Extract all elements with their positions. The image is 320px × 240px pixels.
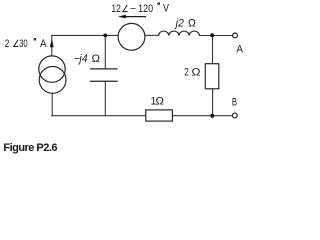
junction dot node A — [210, 33, 214, 37]
svg-text:j4: j4 — [77, 53, 87, 65]
svg-text:120: 120 — [138, 3, 153, 15]
voltage source reference arrow — [118, 15, 146, 19]
svg-text:Ω: Ω — [92, 53, 100, 65]
wire right branch upper — [212, 36, 214, 64]
wire right branch lower — [212, 89, 214, 116]
svg-text:−: − — [130, 3, 136, 15]
wire capacitor bottom lead — [104, 81, 106, 116]
wire inductor to terminal A — [199, 35, 232, 37]
wire source to inductor — [145, 34, 159, 36]
svg-text:30: 30 — [19, 38, 28, 50]
svg-text:Figure P2.6: Figure P2.6 — [3, 142, 57, 154]
current source I1 — [39, 56, 66, 93]
resistor 2 ohm body — [205, 64, 219, 89]
svg-text:2: 2 — [184, 67, 189, 79]
wire capacitor top lead — [104, 35, 106, 69]
terminal A circle — [233, 33, 238, 38]
svg-text:12: 12 — [111, 3, 121, 15]
junction dot node B — [210, 114, 214, 118]
capacitor plate bottom — [90, 80, 118, 82]
wire current source bottom lead — [51, 93, 53, 115]
svg-text:A: A — [40, 38, 47, 50]
label current source degree sign — [34, 38, 36, 40]
capacitor plate top — [90, 68, 118, 70]
svg-text:V: V — [163, 3, 170, 15]
svg-text:j2: j2 — [174, 17, 184, 29]
label voltage source degree sign — [158, 3, 160, 5]
wire current source top lead — [51, 35, 53, 55]
inductor j2 — [159, 31, 200, 36]
svg-text:Ω: Ω — [192, 67, 201, 79]
wire bottom left — [52, 115, 146, 117]
terminal B circle — [232, 113, 237, 118]
svg-text:Ω: Ω — [188, 17, 196, 29]
label current source angle symbol — [14, 40, 19, 47]
voltage source V1 — [118, 23, 145, 50]
svg-text:B: B — [232, 96, 237, 108]
junction dot capacitor top — [103, 34, 107, 38]
wire top-left segment — [52, 34, 118, 36]
resistor 1 ohm body — [146, 110, 173, 121]
label voltage source angle symbol — [123, 5, 128, 12]
svg-text:2: 2 — [5, 38, 10, 50]
svg-text:Ω: Ω — [156, 96, 164, 108]
svg-text:A: A — [236, 43, 243, 55]
wire bottom right to terminal B — [172, 115, 232, 117]
current source arrow — [50, 38, 54, 47]
